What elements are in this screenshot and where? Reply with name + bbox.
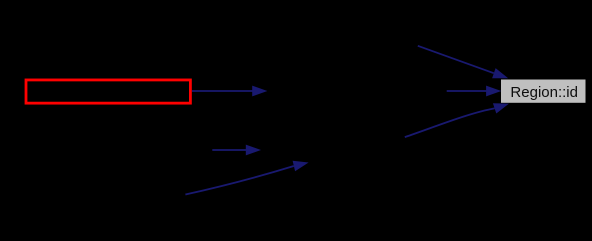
node Region::id (current, grey) [501,80,586,103]
edge d: lower-middle node to Region::id [405,103,509,137]
edge e: short horizontal arrow row 2 [212,145,261,156]
edge f: bottom-left node diagonal arrow [185,161,308,195]
edge c: top node to Region::id [418,46,508,79]
node (red, truncated) caller box [26,80,190,103]
edge b: middle node to Region::id (horizontal) [447,86,502,97]
edge a: red box to middle node [192,86,267,97]
svg-text:Region::id: Region::id [510,84,578,101]
